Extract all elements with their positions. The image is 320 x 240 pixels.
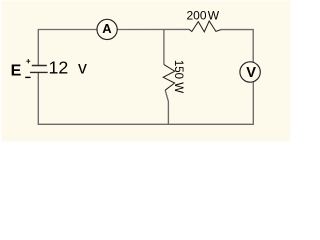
svg-text:150 W: 150 W [172,60,184,93]
svg-text:E: E [11,62,22,79]
svg-text:200W: 200W [187,9,220,23]
svg-text:A: A [102,21,112,36]
svg-text:V: V [246,65,256,81]
svg-text:12v: 12v [49,57,88,77]
